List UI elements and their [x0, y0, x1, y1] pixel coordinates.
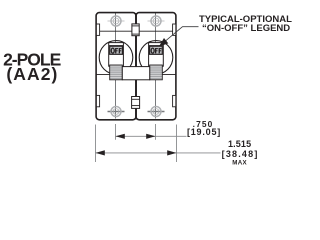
svg-text:[19.05]: [19.05]: [187, 127, 221, 137]
bottom center connector box: [132, 97, 140, 109]
extension line left: [95, 125, 97, 163]
mounting hole circle bottom module 1: [111, 107, 121, 117]
svg-text:“ON-OFF” LEGEND: “ON-OFF” LEGEND: [202, 23, 290, 34]
crosshair horizontal bottom module 2: [148, 111, 165, 113]
svg-text:[38.48]: [38.48]: [222, 149, 259, 159]
centerline module 1: [115, 12, 117, 119]
mounting hole circle bottom module 2: [151, 107, 161, 117]
right tab bottom: [173, 95, 176, 106]
mounting hole circle top module 1: [111, 16, 121, 26]
extension line center module 1: [115, 124, 117, 140]
bezel circle module 2: [139, 41, 173, 75]
right tab top: [173, 24, 176, 35]
left tab bottom: [96, 95, 99, 106]
bezel circle module 1: [99, 41, 133, 75]
toggle handle module 1: [109, 43, 124, 67]
mounting hole circle top module 2: [151, 16, 161, 26]
crosshair horizontal top module 1: [108, 20, 125, 22]
crosshair horizontal top module 2: [148, 20, 165, 22]
top center connector box: [132, 24, 139, 36]
outer dimension arrow right: [167, 150, 176, 155]
mid seam line left: [96, 74, 110, 76]
outer dimension line 1.515: [96, 152, 221, 154]
inner dimension arrow left: [116, 134, 125, 139]
left tab top: [96, 24, 99, 35]
toggle handle module 2: [149, 43, 164, 67]
mid seam line right: [162, 74, 176, 76]
inner dimension line .750: [116, 135, 187, 137]
top seam line: [96, 30, 176, 32]
module 1 body outline: [96, 13, 136, 120]
crosshair horizontal bottom module 1: [108, 111, 125, 113]
handle tie bar: [122, 67, 149, 80]
callout leader line: [159, 27, 199, 47]
inner dimension arrow right: [146, 134, 155, 139]
outer dimension arrow left: [96, 150, 105, 155]
extension line center module 2: [155, 124, 157, 140]
toggle grip hatched module 2: [150, 65, 163, 80]
svg-text:1.515: 1.515: [228, 139, 251, 149]
extension line right: [176, 125, 178, 163]
module 2 body outline: [136, 13, 176, 120]
toggle grip hatched module 1: [110, 65, 123, 80]
centerline module 2: [155, 12, 157, 119]
callout arrowhead: [159, 38, 169, 47]
module boundary line: [135, 13, 137, 120]
svg-text:MAX: MAX: [232, 160, 247, 167]
svg-text:(AA2): (AA2): [6, 64, 58, 84]
